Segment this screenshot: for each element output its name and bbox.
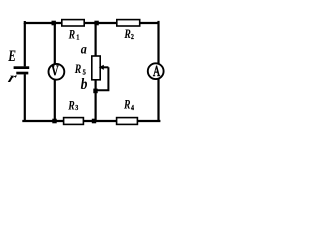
wire voltmeter branch [54,23,56,121]
svg-text:R: R [68,28,76,42]
svg-text:E: E [7,48,16,65]
node bottom-middle junction [92,119,96,124]
resistor R4 [117,98,138,124]
wire top [25,21,159,23]
node top-left junction [52,21,56,26]
svg-text:R: R [74,63,82,77]
rheostat R5 box [92,56,100,80]
wire bottom [22,120,160,122]
svg-text:5: 5 [83,68,87,77]
svg-text:2: 2 [131,33,135,41]
svg-text:b: b [81,76,88,93]
node bottom-left junction [52,119,56,124]
svg-text:3: 3 [75,105,79,113]
svg-text:R: R [67,99,75,113]
resistor R3 [64,99,84,124]
svg-text:R: R [124,28,132,42]
voltmeter V [49,64,65,80]
node top-middle junction [94,21,98,26]
svg-text:a: a [81,42,88,57]
battery E short plate [16,72,28,75]
wire rheostat branch [94,23,96,121]
wire left [24,23,26,122]
ammeter A [148,63,164,79]
svg-text:R: R [123,98,131,112]
wiper wire [96,67,109,90]
wiper arrowhead [99,65,104,70]
svg-text:r: r [6,69,19,85]
resistor R1 [62,20,84,42]
battery E long plate [14,66,30,69]
svg-text:4: 4 [131,105,135,113]
node wiper junction [93,89,97,94]
svg-text:1: 1 [76,34,80,42]
wire right [157,21,159,121]
resistor R2 [117,20,140,42]
